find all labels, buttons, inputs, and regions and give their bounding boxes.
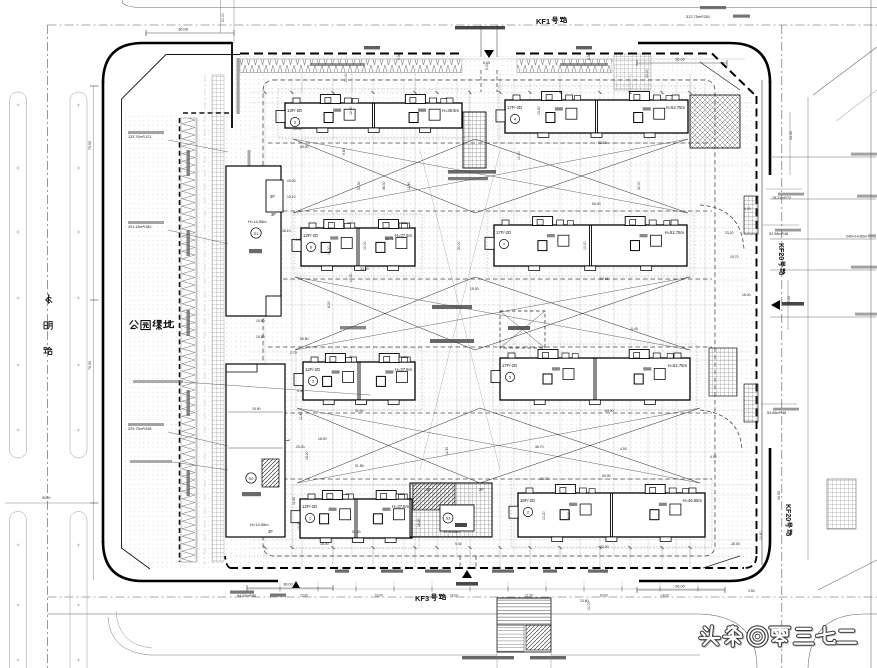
svg-text:36.00: 36.00 — [283, 583, 293, 587]
svg-text:312.75m²/281: 312.75m²/281 — [686, 14, 710, 19]
interior axis line web (light) — [264, 78, 266, 556]
svg-text:KF1: KF1 — [536, 17, 550, 26]
boundary bold dashed chamfer to right — [712, 54, 756, 97]
svg-text:30.00: 30.00 — [789, 131, 793, 140]
band border lines — [240, 58, 745, 60]
svg-text:4.00: 4.00 — [295, 238, 302, 242]
right parking labels — [778, 193, 804, 196]
svg-text:10.60: 10.60 — [759, 531, 763, 540]
boundary thick notch vertical x=232 — [231, 42, 233, 128]
svg-text:10.00: 10.00 — [583, 241, 587, 250]
svg-text:4.00: 4.00 — [744, 207, 751, 211]
svg-text:15.10: 15.10 — [287, 195, 296, 199]
road name KF20 upper (vertical) — [777, 243, 785, 274]
outside-boundary utility square (right road) — [827, 479, 856, 529]
svg-text:18.00: 18.00 — [450, 594, 458, 598]
sidewalk label top (renwangdao) — [364, 46, 380, 49]
dim 36.00 bottom-right — [637, 589, 725, 591]
boundary tick marks — [264, 91, 267, 94]
svg-text:10.00: 10.00 — [327, 246, 331, 255]
svg-text:78.21m²/72: 78.21m²/72 — [772, 196, 791, 200]
svg-text:8.30: 8.30 — [327, 301, 331, 308]
svg-text:19.80: 19.80 — [256, 335, 265, 339]
svg-text:36.30: 36.30 — [382, 181, 386, 190]
svg-text:12F/-2D: 12F/-2D — [303, 233, 318, 238]
svg-text:4.00: 4.00 — [620, 447, 627, 451]
road name Yongming Rd (vertical) — [46, 294, 52, 303]
non-motor parking canopy strip (zigzag hatch) — [181, 118, 196, 562]
svg-text:30.00: 30.00 — [777, 491, 781, 500]
svg-text:11.40: 11.40 — [407, 182, 411, 190]
svg-text:16.00: 16.00 — [742, 293, 751, 297]
svg-text:12F/-2D: 12F/-2D — [302, 504, 317, 509]
inner thin line right — [761, 80, 763, 565]
svg-text:63.00: 63.00 — [300, 145, 309, 149]
svg-text:2F: 2F — [479, 487, 484, 492]
svg-text:H=52.75m: H=52.75m — [666, 105, 686, 110]
svg-text:63.00: 63.00 — [592, 202, 601, 206]
boundary thick left vertical — [102, 81, 105, 543]
right road west edge segment — [807, 97, 809, 560]
svg-text:-18.00: -18.00 — [730, 542, 740, 546]
SE intersection corner arcs — [700, 614, 757, 668]
svg-text:15F/-2D: 15F/-2D — [520, 498, 535, 503]
svg-text:12F/-2D: 12F/-2D — [305, 367, 320, 372]
parking lane marking capsule col1 upper — [10, 92, 27, 458]
boundary thick bottom-left arc — [103, 541, 278, 581]
svg-text:30.00: 30.00 — [457, 241, 461, 250]
svg-text:-18.00: -18.00 — [660, 594, 669, 598]
NE intersection corner chamfers — [813, 47, 877, 95]
svg-text:5.30: 5.30 — [397, 53, 401, 60]
S2 hatched core — [262, 459, 279, 487]
small bottom entrance marker — [292, 581, 300, 588]
svg-text:H=37.5m: H=37.5m — [392, 504, 410, 509]
NE corner paved square (crosshatch) — [690, 95, 740, 148]
X diagonals court2 — [295, 277, 475, 350]
svg-text:63.00: 63.00 — [605, 409, 614, 413]
svg-text:12.60: 12.60 — [349, 106, 353, 115]
blank zone top-left inside boundary — [122, 55, 231, 112]
svg-text:9.80: 9.80 — [342, 148, 346, 155]
inner setback line right chamfer — [700, 62, 740, 90]
svg-text:18.00: 18.00 — [320, 542, 329, 546]
svg-text:3F: 3F — [268, 529, 273, 534]
boundary bold dashed right vertical — [756, 96, 758, 556]
svg-text:H=37.5m: H=37.5m — [395, 233, 413, 238]
south block edge + SW corner arc of lower block — [108, 617, 497, 655]
boundary bold dashed bottom — [230, 567, 744, 569]
road name KF20 lower (vertical) — [784, 504, 792, 535]
svg-text:19.80: 19.80 — [256, 319, 265, 323]
svg-text:201.18m²/182: 201.18m²/182 — [128, 225, 151, 229]
svg-text:15.90: 15.90 — [252, 407, 261, 411]
svg-text:10.20: 10.20 — [542, 511, 546, 520]
building 3# residential 13F/-2D H=39.9m — [285, 103, 462, 128]
svg-text:H=39.9m: H=39.9m — [442, 108, 460, 113]
top fire/vehicle entrance — [480, 25, 482, 57]
svg-text:70.00: 70.00 — [88, 141, 92, 150]
svg-text:3.50: 3.50 — [748, 589, 755, 593]
svg-text:92.66: 92.66 — [598, 141, 607, 145]
parking lane marking capsule col2 upper — [70, 92, 87, 458]
svg-text:KF3: KF3 — [415, 594, 429, 603]
left road dimension line 70.00 — [93, 86, 95, 580]
boundary thick: top-right segment + arc — [638, 43, 770, 83]
svg-text:10.00: 10.00 — [517, 151, 521, 160]
svg-text:2F: 2F — [270, 194, 275, 199]
building S1 commercial 3F H=14.55m — [226, 166, 281, 316]
substation grid rect — [709, 348, 737, 396]
svg-text:11.50: 11.50 — [525, 594, 533, 598]
svg-text:15.00: 15.00 — [470, 287, 479, 291]
building 3#b residential 12F/-2D H=37.5m — [303, 362, 415, 400]
strip top bold dash notch — [183, 112, 232, 114]
svg-text:S2: S2 — [249, 476, 255, 481]
svg-text:36.00: 36.00 — [675, 585, 685, 589]
fire lane dashed cross segments — [268, 142, 712, 144]
svg-text:5.00: 5.00 — [485, 63, 489, 70]
top zigzag social-parking band — [240, 59, 462, 73]
svg-text:53.50: 53.50 — [352, 530, 361, 534]
svg-text:11.50: 11.50 — [445, 447, 449, 455]
svg-text:-0.40: -0.40 — [630, 327, 638, 331]
svg-text:9.40: 9.40 — [455, 542, 462, 546]
building 4# residential 17F/-2D H=52.75m — [505, 100, 688, 133]
svg-text:23.20: 23.20 — [725, 231, 734, 235]
svg-text:11.80: 11.80 — [292, 497, 296, 505]
svg-text:S3: S3 — [446, 517, 451, 521]
vertical labels inside strip — [187, 150, 190, 176]
svg-text:24m<H<60m: 24m<H<60m — [846, 235, 867, 239]
fire lane dashed ring — [263, 80, 715, 556]
building 2# residential 15F/-2D H=46.65m — [518, 493, 705, 537]
svg-text:H=52.75m: H=52.75m — [668, 363, 688, 368]
dim 36.08 top-left — [146, 32, 234, 34]
svg-text:17F/-2D: 17F/-2D — [507, 105, 522, 110]
left rotated label column at x=240 — [237, 58, 240, 114]
fire lane dashed center verticals — [480, 70, 482, 92]
central spine X — [420, 150, 500, 470]
svg-text:36.00: 36.00 — [675, 58, 685, 62]
svg-text:S1: S1 — [254, 231, 260, 236]
svg-text:63.00: 63.00 — [602, 474, 611, 478]
svg-text:36.70: 36.70 — [535, 445, 544, 449]
svg-text:1F: 1F — [426, 487, 431, 492]
svg-text:16.20: 16.20 — [417, 518, 421, 527]
svg-text:H=14.55m: H=14.55m — [250, 522, 269, 527]
svg-text:17F/-2D: 17F/-2D — [496, 230, 511, 235]
bottom dimension chain — [247, 588, 725, 590]
svg-text:18.00: 18.00 — [318, 437, 327, 441]
svg-text:229.75m²/208: 229.75m²/208 — [128, 427, 151, 431]
svg-text:65.80: 65.80 — [300, 337, 309, 341]
bicycle canopy grid strip (row1) — [463, 112, 486, 168]
svg-text:21.58: 21.58 — [355, 464, 364, 468]
svg-text:53.68m²/48: 53.68m²/48 — [767, 411, 786, 415]
svg-text:11.00: 11.00 — [567, 512, 571, 520]
X diagonals court3 — [297, 408, 480, 483]
road centerline KF20 (right, dash-dot) — [781, 25, 783, 668]
svg-text:2.70: 2.70 — [290, 351, 297, 355]
svg-text:KF20: KF20 — [777, 243, 784, 260]
svg-text:30.00: 30.00 — [637, 181, 641, 190]
label: park green space — [130, 321, 138, 329]
building 1# residential 12F/-2D H=37.5m — [300, 499, 412, 538]
svg-text:13F/-2D: 13F/-2D — [287, 108, 302, 113]
dashed interior curves near right boundary — [700, 205, 744, 250]
right edge canopy grid A — [744, 196, 758, 234]
svg-text:17.30: 17.30 — [349, 273, 353, 282]
svg-text:10.00: 10.00 — [363, 241, 367, 250]
road centerline Yongming Rd (left, dash-dot) — [47, 25, 49, 668]
boundary thick right lower vertical + bottom-right arc — [639, 448, 770, 581]
right edge regulation labels — [770, 156, 876, 158]
svg-text:4.40: 4.40 — [297, 389, 304, 393]
capsule tick dots — [17, 104, 20, 107]
bottom road south edge — [48, 613, 701, 615]
parking lane marking capsule col2 lower — [70, 512, 87, 668]
svg-text:92.66: 92.66 — [600, 277, 609, 281]
svg-text:94.93m²/86: 94.93m²/86 — [237, 594, 256, 598]
right side vertical dims — [789, 112, 791, 175]
svg-text:11.40: 11.40 — [299, 412, 303, 420]
axis dash-dot line x=205 — [204, 75, 206, 565]
S3 diagonal hatch part — [413, 483, 455, 510]
building 5# residential 17F/-2D H=52.75m — [500, 358, 690, 400]
bottom main entrance — [462, 570, 472, 578]
svg-text:19.70: 19.70 — [730, 255, 739, 259]
svg-text:58.75: 58.75 — [385, 237, 394, 241]
left leader labels — [168, 140, 228, 152]
svg-text:36.08: 36.08 — [178, 28, 188, 32]
right road east edge — [870, 0, 872, 668]
building 6# residential 12F/-2D H=37.5m — [301, 228, 415, 266]
svg-text:20.00: 20.00 — [296, 445, 305, 449]
svg-text:63.00: 63.00 — [600, 594, 608, 598]
svg-text:15.00: 15.00 — [287, 179, 296, 183]
band tiny labels — [310, 63, 365, 66]
svg-text:16.20: 16.20 — [305, 451, 309, 460]
svg-text:17F/-2D: 17F/-2D — [502, 363, 517, 368]
svg-text:23.60: 23.60 — [300, 594, 308, 598]
paved square in band right — [614, 54, 651, 90]
svg-text:5000: 5000 — [42, 496, 50, 500]
svg-text:20.00: 20.00 — [221, 13, 225, 22]
turning yard dashed rect with X — [500, 311, 545, 348]
svg-text:33.50: 33.50 — [360, 267, 369, 271]
svg-text:36.10: 36.10 — [282, 229, 291, 233]
svg-text:20.00: 20.00 — [344, 73, 348, 82]
site boundary thick: top-left arc + top segment — [103, 43, 232, 83]
svg-text:H=46.65m: H=46.65m — [683, 498, 703, 503]
road centerline KF3 (bottom, dash-dot) — [48, 596, 877, 598]
dim 36.00 bottom-left — [247, 587, 333, 589]
parking lane marking capsule col1 lower — [10, 512, 27, 668]
dim 36.00 top-right — [637, 62, 727, 64]
court labels smudges — [432, 305, 472, 309]
svg-text:KF20: KF20 — [784, 504, 791, 521]
svg-text:30.30: 30.30 — [357, 181, 361, 190]
site paved ground dot texture — [122, 55, 757, 569]
svg-text:26.00: 26.00 — [787, 296, 791, 305]
svg-text:H=52.75m: H=52.75m — [665, 230, 685, 235]
bottom walk dotted band labels — [335, 570, 349, 573]
svg-text:H=14.55m: H=14.55m — [248, 219, 267, 224]
svg-text:13.00: 13.00 — [645, 69, 649, 78]
svg-text:4.00: 4.00 — [710, 455, 717, 459]
watermark outlined text — [701, 628, 720, 647]
building 7# residential 17F/-2D H=52.75m — [494, 225, 687, 266]
top road north edge — [122, 0, 877, 8]
svg-text:70.00: 70.00 — [88, 361, 92, 370]
right edge canopy grid B — [744, 384, 758, 422]
svg-text:10.30: 10.30 — [297, 521, 301, 530]
building S2 commercial 3F H=14.55m — [226, 364, 285, 537]
svg-text:32.00: 32.00 — [355, 409, 364, 413]
paved walkway grid strip — [212, 75, 224, 562]
fire-engine hardstand X diagonals court1 — [293, 139, 475, 213]
cultural activity station (stairs grid) — [497, 598, 551, 652]
inner setback line (thin) with chamfered corners — [122, 55, 241, 570]
road centerline KF1 (top, dash-dot) — [48, 24, 877, 26]
svg-text:3F: 3F — [271, 212, 276, 217]
svg-text:15.00: 15.00 — [293, 127, 302, 131]
svg-text:13.40: 13.40 — [537, 106, 541, 115]
right vehicle entrance — [771, 300, 780, 310]
boundary bold dashed sidewalk top — [240, 53, 462, 55]
svg-text:36.70: 36.70 — [540, 477, 549, 481]
svg-text:H=37.5m: H=37.5m — [395, 367, 413, 372]
svg-text:63.00: 63.00 — [375, 594, 383, 598]
svg-text:133.76m²/121: 133.76m²/121 — [128, 135, 151, 139]
building S3 amenity 2F H=9.45m (paved square) — [410, 483, 492, 537]
svg-text:H=9.45m: H=9.45m — [444, 530, 460, 534]
boundary thick right upper vertical — [769, 81, 772, 175]
svg-text:23.60: 23.60 — [580, 599, 589, 603]
bold dashed edge of strip — [179, 118, 181, 562]
svg-text:8.50: 8.50 — [587, 53, 591, 60]
svg-text:52.98m²/48: 52.98m²/48 — [769, 232, 788, 236]
